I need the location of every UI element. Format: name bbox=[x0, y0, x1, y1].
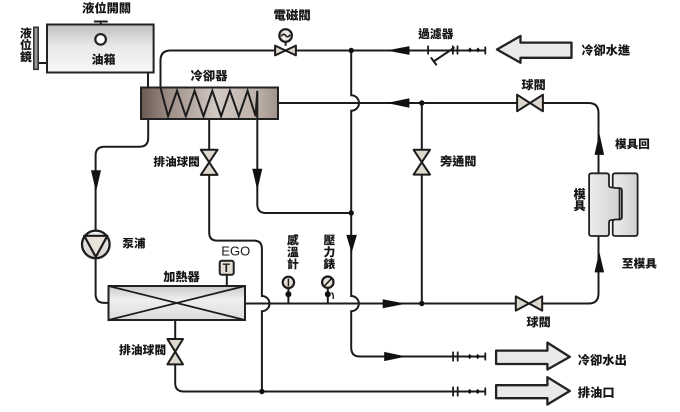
svg-text:T: T bbox=[223, 261, 231, 275]
svg-text:EGO: EGO bbox=[221, 244, 250, 259]
